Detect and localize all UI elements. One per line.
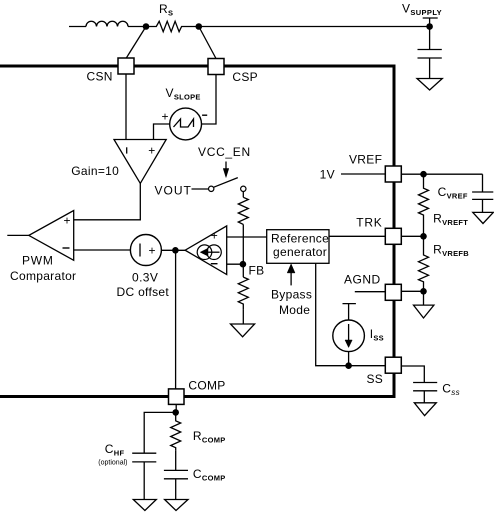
- node AGND divider: [420, 288, 427, 295]
- node COMP junction: [172, 247, 179, 254]
- op-amp gain=10: [71, 140, 166, 184]
- svg-text:DC offset: DC offset: [117, 285, 170, 299]
- pin TRK: [356, 216, 401, 245]
- ground (CCOMP): [165, 500, 188, 511]
- svg-text:+: +: [64, 214, 71, 228]
- svg-text:+: +: [148, 144, 155, 158]
- op-amp PWM comparator: [10, 211, 76, 284]
- IC box U1: [0, 66, 394, 397]
- svg-text:TRK: TRK: [356, 216, 382, 230]
- pin COMP: [169, 379, 226, 405]
- VSUPPLY terminal: [402, 2, 442, 27]
- capacitor CCOMP: [164, 450, 226, 499]
- wire CSN to gain amp: [125, 74, 127, 140]
- wire SS to CSS: [401, 366, 424, 383]
- ground (VSUPPLY cap): [417, 79, 442, 91]
- svg-text:generator: generator: [273, 245, 327, 259]
- svg-text:VCC_EN: VCC_EN: [198, 145, 251, 159]
- capacitor CHF: [98, 442, 156, 500]
- resistor feedback top: [238, 197, 248, 224]
- ground (CSS): [414, 403, 436, 416]
- resistor RS: [146, 2, 199, 32]
- svg-text:+: +: [149, 244, 156, 258]
- 1V label and wire: [320, 168, 386, 182]
- resistor RCOMP: [171, 412, 226, 450]
- pin VREF: [349, 153, 401, 183]
- resistor RVREFB: [419, 236, 470, 291]
- svg-text:Gain=10: Gain=10: [71, 164, 119, 178]
- node RVREFT top: [420, 171, 427, 178]
- node COMP bottom: [172, 409, 179, 416]
- source VSLOPE: [162, 86, 208, 140]
- svg-text:CSP: CSP: [232, 70, 258, 84]
- reference generator U2: [267, 230, 329, 264]
- source 0.3V DC offset: [117, 235, 170, 300]
- capacitor C supply: [418, 27, 442, 79]
- svg-text:COMP: COMP: [188, 379, 225, 393]
- node A (left of Rs): [143, 23, 150, 30]
- resistor feedback bottom: [238, 277, 248, 309]
- ground (CVREF): [473, 212, 494, 223]
- wire AGND stub: [355, 291, 386, 293]
- svg-text:Mode: Mode: [279, 303, 310, 317]
- wire RFB mid: [242, 224, 244, 277]
- wire AGND to node: [401, 290, 423, 292]
- svg-text:Bypass: Bypass: [271, 288, 312, 302]
- node B (right of Rs): [196, 23, 203, 30]
- svg-text:FB: FB: [249, 264, 265, 278]
- wire COMP pin down: [175, 404, 177, 412]
- svg-text:Reference: Reference: [271, 232, 329, 246]
- inductor L1: [86, 21, 128, 26]
- svg-text:SS: SS: [367, 372, 384, 386]
- wire inductor to node A: [128, 26, 146, 28]
- wire to ground: [423, 291, 425, 305]
- wire Vslope to gain amp +: [154, 124, 170, 140]
- wire COMP vertical: [175, 250, 177, 389]
- pin SS: [367, 357, 402, 386]
- pin AGND: [344, 273, 401, 301]
- pin CSN: [87, 58, 135, 84]
- wire to CHF: [144, 412, 176, 453]
- wire refgen bottom to SS: [316, 263, 386, 365]
- node ISS junction: [345, 362, 352, 369]
- switch VCC_EN: [209, 178, 247, 192]
- pin CSP: [208, 59, 258, 85]
- wire switch to RFB top: [242, 192, 244, 198]
- node FB: [240, 261, 265, 278]
- wire refgen to TRK: [329, 235, 386, 237]
- wire top input: [69, 26, 86, 28]
- wire node A to CSN pin: [126, 27, 146, 59]
- Bypass Mode arrow: [271, 264, 312, 317]
- svg-text:CSN: CSN: [87, 70, 113, 84]
- wire RFB to ground: [242, 309, 244, 324]
- capacitor CVREF: [438, 174, 494, 212]
- capacitor CSS: [413, 382, 460, 403]
- wire node B to VSUPPLY junction: [199, 26, 430, 28]
- resistor RVREFT: [419, 174, 469, 236]
- wire gain amp out to PWM +: [74, 183, 141, 219]
- svg-text:+: +: [162, 110, 169, 124]
- svg-text:0.3V: 0.3V: [132, 271, 158, 285]
- ground (CHF): [133, 500, 156, 511]
- current source ISS: [333, 304, 384, 366]
- svg-text:VREF: VREF: [349, 153, 382, 167]
- ground (FB divider): [231, 324, 255, 337]
- VOUT label: [155, 184, 192, 198]
- wire error amp + to reference generator: [227, 236, 267, 238]
- wire VREF to CVREF: [401, 173, 482, 175]
- VCC_EN label and arrow: [198, 145, 251, 178]
- wire error amp - to FB node: [227, 263, 243, 265]
- ground (divider): [414, 305, 434, 318]
- wire 0.3V to COMP node: [161, 249, 185, 251]
- svg-text:PWM: PWM: [22, 254, 54, 268]
- wire VOUT to switch: [192, 188, 209, 190]
- svg-text:VOUT: VOUT: [155, 184, 192, 198]
- op-amp error amplifier gm: [185, 226, 227, 275]
- svg-text:AGND: AGND: [344, 273, 381, 287]
- node VSUPPLY junction: [426, 23, 433, 30]
- svg-text:Comparator: Comparator: [10, 269, 76, 283]
- wire PWM - to 0.3V source: [74, 249, 131, 251]
- wire node B to CSP pin: [199, 27, 216, 59]
- wire TRK to node: [401, 235, 423, 237]
- svg-text:(optional): (optional): [98, 460, 127, 467]
- svg-text:1V: 1V: [320, 168, 335, 182]
- wire PWM output: [7, 234, 29, 236]
- wire CSP to Vslope: [202, 75, 217, 125]
- svg-text:+: +: [211, 229, 218, 243]
- node TRK divider: [420, 233, 427, 240]
